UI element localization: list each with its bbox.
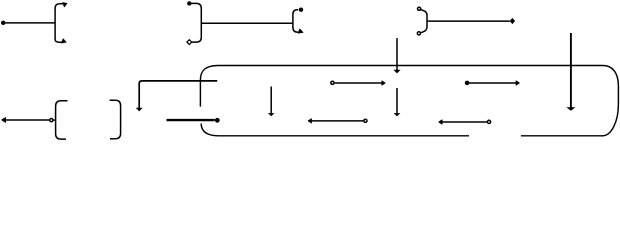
- bracket right: [110, 100, 121, 139]
- L-shaped arrow into container: [139, 81, 217, 108]
- inner arrowhead right: [394, 113, 401, 116]
- container bottom-left: [201, 124, 469, 136]
- thick line with end dot: [167, 119, 215, 121]
- wire: [201, 22, 293, 24]
- arrow C circle to left: [364, 119, 367, 122]
- fork F1 bottom branch: [55, 39, 62, 42]
- arrow B dot to right: [465, 81, 470, 86]
- left arrowhead: [2, 118, 6, 123]
- L-arrow head: [136, 108, 143, 112]
- fork F2 top end dot: [299, 8, 303, 12]
- left arrow with circle start: [50, 119, 53, 122]
- arrow C head: [308, 119, 311, 123]
- arrowhead below container top: [393, 70, 400, 74]
- join J1 body: [191, 3, 202, 42]
- fork F2 spine: [292, 14, 294, 27]
- vertical arrow piercing container top: [396, 38, 398, 70]
- arrow B head: [516, 81, 519, 85]
- arrow D head: [439, 120, 442, 124]
- join J2 bottom circle: [417, 32, 420, 35]
- fork F1 spine: [54, 8, 56, 40]
- join J1 bottom diamond: [187, 40, 192, 45]
- vertical arrow inside container left: [270, 87, 272, 114]
- arrow A head: [382, 81, 385, 85]
- fork F2 bottom branch: [293, 27, 298, 32]
- arrow A circle to right: [331, 81, 334, 84]
- fork F2 bottom arrowhead: [298, 29, 303, 34]
- fork F1 bottom arrowhead: [62, 39, 67, 44]
- fork F1 top arrowhead: [63, 2, 68, 7]
- join J1 top dot: [187, 1, 191, 5]
- fork F1 top branch: [55, 4, 63, 9]
- long vertical arrow: [570, 33, 572, 108]
- end diamond: [510, 18, 515, 24]
- long vertical arrowhead: [566, 107, 575, 111]
- join J2 body: [421, 10, 427, 33]
- wire: [427, 20, 510, 22]
- container left edge and top-left corner: [200, 66, 218, 107]
- container top, right cap, bottom-right: [218, 66, 618, 136]
- fork F2 top branch: [293, 10, 298, 15]
- inner arrowhead left: [268, 113, 275, 116]
- node dot start of first fork: [1, 21, 5, 25]
- vertical arrow inside container: [396, 88, 398, 113]
- join J2 top circle: [418, 7, 421, 10]
- wire: [3, 22, 55, 24]
- bracket left: [56, 101, 68, 139]
- arrow D circle to left: [487, 120, 490, 123]
